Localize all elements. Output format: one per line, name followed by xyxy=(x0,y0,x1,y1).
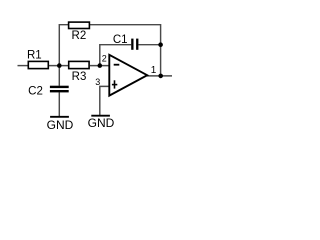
svg-text:2: 2 xyxy=(102,54,107,64)
svg-text:3: 3 xyxy=(95,77,100,87)
svg-text:R2: R2 xyxy=(72,30,87,42)
svg-text:C1: C1 xyxy=(113,34,128,46)
svg-text:GND: GND xyxy=(47,118,74,130)
svg-text:R1: R1 xyxy=(27,50,42,62)
svg-text:R3: R3 xyxy=(72,71,87,83)
svg-text:GND: GND xyxy=(88,116,115,130)
svg-text:C2: C2 xyxy=(28,85,43,97)
svg-text:1: 1 xyxy=(151,65,157,76)
